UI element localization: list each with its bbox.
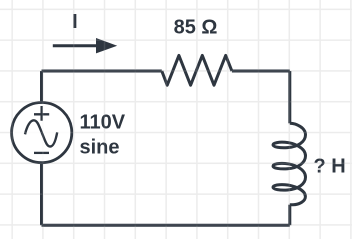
voltage source V1 circle xyxy=(12,103,72,163)
wire: right vertical lower (inductor to bottom rail) xyxy=(288,205,291,226)
inductor L1 coil xyxy=(273,123,306,204)
wire: source bottom stub xyxy=(40,163,43,226)
minus terminal xyxy=(34,152,49,154)
current arrow I xyxy=(53,38,117,53)
wire: right vertical upper (to inductor) xyxy=(288,71,291,123)
wire: bottom rail xyxy=(42,224,290,227)
plus terminal xyxy=(34,106,49,121)
sine wave inside source xyxy=(25,120,57,146)
wire: source top stub xyxy=(40,71,43,103)
resistor R1 85ohm xyxy=(162,55,232,85)
wire: top rail left segment xyxy=(42,70,162,73)
wire: top rail right segment xyxy=(232,70,290,73)
